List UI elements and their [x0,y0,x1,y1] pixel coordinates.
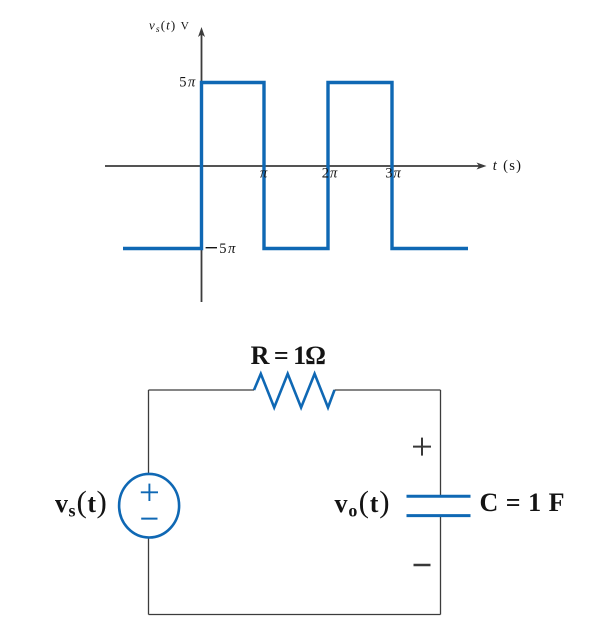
svg-text:vs(t) V: vs(t) V [149,18,190,36]
svg-text:t (s): t (s) [493,158,522,174]
svg-text:π: π [260,166,268,182]
svg-text:vs(t): vs(t) [55,484,107,521]
svg-text:3π: 3π [385,166,402,182]
svg-text:5π: 5π [179,75,197,91]
svg-text:C = 1 F: C = 1 F [480,488,565,517]
svg-text:R = 1Ω: R = 1Ω [251,341,326,370]
svg-text:vo(t): vo(t) [335,484,391,521]
svg-text:5π: 5π [219,241,237,257]
svg-text:2π: 2π [322,166,339,182]
